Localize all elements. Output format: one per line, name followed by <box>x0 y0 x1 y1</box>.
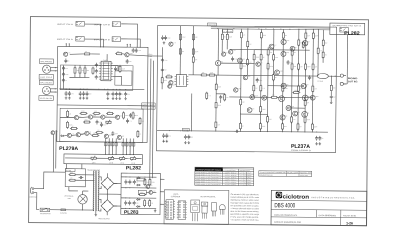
resistor R38 <box>260 53 262 61</box>
label CH A supply <box>142 103 156 106</box>
transistor package TO-247 view <box>191 200 200 212</box>
svg-text:110V-60Hz: 110V-60Hz <box>224 184 237 186</box>
capacitor C67 <box>219 95 222 100</box>
wire secondary tap 3 <box>99 199 101 203</box>
svg-text:10K: 10K <box>306 84 309 86</box>
transistor Q50 output stage <box>281 39 286 44</box>
svg-text:impedancia minima 4 ohms c: impedancia minima 4 ohms canal. <box>231 199 260 202</box>
resistor R93 rail <box>192 56 194 64</box>
capacitor C51 filter <box>128 180 131 185</box>
svg-text:+/-52 VAC: +/-52 VAC <box>239 177 251 179</box>
svg-text:DBS 4000: DBS 4000 <box>274 202 295 209</box>
resistor R29 <box>119 65 121 73</box>
svg-text:110V-60Hz: 110V-60Hz <box>224 182 237 184</box>
wire header pin 2 to PL282 <box>108 138 110 154</box>
svg-text:560R: 560R <box>140 192 143 194</box>
transistor Q22 <box>168 84 172 88</box>
resistor R2 <box>115 53 123 55</box>
svg-text:10K: 10K <box>217 124 220 126</box>
ic package view DIP U20 <box>166 200 174 220</box>
svg-text:22K: 22K <box>285 116 288 118</box>
svg-text:47K: 47K <box>262 88 265 90</box>
svg-text:I N D U S T R I A E L E T R: I N D U S T R I A E L E T R O N I C A L … <box>311 196 356 199</box>
label PL-282 filter <box>65 169 75 172</box>
transistor Q52 output stage <box>280 115 285 120</box>
resistor R68 <box>297 123 299 131</box>
wire jack J4 to preamp input <box>121 39 140 47</box>
resistor R63 <box>291 63 293 71</box>
svg-text:TRB4000-126 PONTO 6: TRB4000-126 PONTO 6 <box>196 184 221 186</box>
svg-text:DISJUNTOR 8A: DISJUNTOR 8A <box>260 175 273 177</box>
resistor R16 <box>139 117 141 125</box>
transistor Q9 <box>85 131 89 135</box>
capacitor C66 input <box>62 78 65 83</box>
wire transformer primary second <box>85 179 94 181</box>
svg-text:2u2: 2u2 <box>103 124 106 126</box>
table transformer voltages <box>195 167 223 171</box>
power amp board PL237A outline <box>157 25 337 152</box>
ground zobel <box>330 101 333 104</box>
svg-text:INPUT CH B: INPUT CH B <box>94 23 111 26</box>
transistor Q51 output stage <box>303 41 308 46</box>
svg-text:Os sinais A (A) sao identicos.: Os sinais A (A) sao identicos. <box>231 193 260 196</box>
bridge rectifier BR1 <box>101 177 114 190</box>
svg-text:INTERRUPTOR: INTERRUPTOR <box>40 213 51 215</box>
wire amp rail 3 <box>239 29 242 132</box>
svg-text:2K2: 2K2 <box>325 42 328 44</box>
trimmer VR4 level <box>131 156 136 160</box>
wire preamp left drop B <box>55 130 57 168</box>
svg-text:1n: 1n <box>65 80 67 82</box>
wire PL282 to mains filter stub 2 <box>81 164 83 169</box>
svg-text:560R: 560R <box>279 70 282 72</box>
ground amp left 2 <box>184 141 187 144</box>
wire center tap <box>99 193 121 195</box>
wire vas drops <box>221 29 223 33</box>
svg-text:deve ser de mesma secao m: deve ser de mesma secao minima, <box>230 210 259 213</box>
transformer T1 secondary winding <box>98 171 99 211</box>
wire transformer primary top <box>85 174 94 176</box>
wire rails into PL282 box <box>329 27 331 29</box>
transistor Q43 output stage <box>256 62 260 66</box>
wire amp rail 14 <box>317 29 319 76</box>
resistor R18 <box>79 66 81 74</box>
connector jack J2 INPUT CH A <box>76 36 84 41</box>
wire amp rail 6 <box>259 29 262 132</box>
svg-text:560R: 560R <box>95 70 98 72</box>
transistor Q33 output stage <box>290 46 295 51</box>
zobel capacitor C30 <box>330 94 333 99</box>
capacitor C60 <box>287 60 290 65</box>
wire preamp mid bus <box>59 88 144 91</box>
transistor Q31 output stage <box>269 44 274 49</box>
resistor R37 <box>302 41 304 49</box>
svg-text:DATA 08/09/2001: DATA 08/09/2001 <box>319 214 337 217</box>
svg-text:2u2: 2u2 <box>333 96 336 98</box>
svg-text:4K7: 4K7 <box>325 54 328 56</box>
label CH B supply <box>142 106 156 109</box>
svg-text:+75V 0 -75V: +75V 0 -75V <box>208 24 216 26</box>
wire preamp supply row <box>57 104 147 107</box>
capacitor C35 <box>165 133 168 138</box>
svg-text:2K2: 2K2 <box>270 52 273 54</box>
svg-text:10K: 10K <box>315 66 318 68</box>
resistor R83 <box>149 199 151 207</box>
wire zobel drop <box>330 76 332 84</box>
resistor R11 <box>137 130 139 138</box>
wire PL283 bus mid1 <box>121 187 156 189</box>
transistor Q30 output stage <box>237 58 242 63</box>
resistor R21 <box>179 47 181 55</box>
resistor R90 vas <box>221 33 223 41</box>
svg-text:150R: 150R <box>195 51 198 53</box>
resistor R14 <box>70 127 78 129</box>
wire fan feed <box>82 191 84 195</box>
svg-text:150R: 150R <box>294 90 297 92</box>
capacitor C64 input <box>62 66 65 71</box>
wire output node <box>328 75 340 77</box>
capacitor C16 <box>129 113 132 118</box>
trimmer RV1 <box>106 120 111 124</box>
svg-text:- Ao ajustar o nivel use: - Ao ajustar o nivel use sinal rosa. <box>230 218 259 221</box>
svg-text:FUSIVEL 10A: FUSIVEL 10A <box>300 172 311 174</box>
resistor R41 <box>312 63 314 71</box>
pot board PL282 outline <box>64 154 143 165</box>
resistor R58 <box>297 85 299 93</box>
svg-text:PL283: PL283 <box>124 210 139 216</box>
svg-text:+/-75V DC: +/-75V DC <box>223 31 232 33</box>
capacitor C55 <box>133 201 136 206</box>
switch S1 mains <box>40 208 50 211</box>
zobel resistor R60 <box>330 84 332 92</box>
transistor Q10 <box>104 134 108 138</box>
svg-text:150R: 150R <box>109 134 112 136</box>
svg-text:47K: 47K <box>243 35 246 37</box>
capacitor C23 <box>161 67 164 72</box>
svg-text:1-26: 1-26 <box>346 221 353 225</box>
capacitor C2 <box>135 48 138 53</box>
resistor R99 link <box>270 96 278 98</box>
svg-text:22u: 22u <box>311 77 314 79</box>
resistor R46 <box>260 105 262 113</box>
ic package view DIP U21 <box>178 201 186 220</box>
trimmer VR3 level <box>120 156 125 160</box>
resistor R1 <box>83 53 91 55</box>
transistor Q20 <box>169 42 173 46</box>
svg-text:10K: 10K <box>94 111 97 113</box>
transistor Q37 output stage <box>281 83 286 88</box>
capacitor C15 decoupling <box>124 92 127 97</box>
transformer T1 core <box>94 171 96 211</box>
transistor Q48 output stage <box>247 108 252 113</box>
svg-text:330R: 330R <box>218 105 221 107</box>
diode D12 <box>136 199 140 201</box>
resistor R17 <box>74 66 76 74</box>
svg-text:1K: 1K <box>242 126 244 128</box>
capacitor C10 decoupling <box>86 91 89 96</box>
svg-text:110V-60Hz: 110V-60Hz <box>224 177 237 179</box>
junction link nodes <box>150 105 151 106</box>
svg-text:- A tensao alternada sobre: - A tensao alternada sobre os cabos <box>230 207 259 210</box>
transistor Q45 output stage <box>262 95 267 100</box>
svg-text:1K: 1K <box>275 77 277 79</box>
capacitor C22 <box>161 58 164 63</box>
svg-text:1n: 1n <box>68 60 70 62</box>
svg-text:100R: 100R <box>262 126 265 128</box>
wire PL283 bus bottom <box>121 207 156 209</box>
resistor R69 <box>304 99 306 107</box>
wire header pin 4 to PL282 <box>115 138 117 154</box>
transistor Q2 input channel B <box>125 53 129 57</box>
svg-text:1n: 1n <box>136 182 138 184</box>
wire positive rail <box>211 27 330 28</box>
wire amp inner bus 6 <box>289 107 306 109</box>
capacitor C54 <box>133 180 136 185</box>
diode D11 <box>136 184 140 186</box>
svg-text:2K2: 2K2 <box>242 59 245 61</box>
capacitor C50 filter <box>124 180 127 185</box>
svg-text:2K2: 2K2 <box>269 119 272 121</box>
wire amp rail 15 <box>322 30 324 63</box>
resistor R53 <box>297 63 299 71</box>
sheet border frame <box>29 17 369 226</box>
wire AC line top <box>34 172 65 189</box>
resistor R20 <box>179 33 181 41</box>
ground amp left 1 <box>162 140 165 143</box>
resistor R94 <box>206 92 208 100</box>
wire link column 2 <box>152 61 153 178</box>
resistor R42 <box>260 84 262 92</box>
svg-text:10K: 10K <box>314 88 317 90</box>
connector jack J1 INPUT CH A <box>76 21 84 26</box>
svg-text:1n: 1n <box>122 94 124 96</box>
wire inner vertical left <box>190 94 192 131</box>
svg-text:22K: 22K <box>195 37 198 39</box>
capacitor C11 decoupling <box>106 92 109 97</box>
wire amp rail 11 <box>297 29 300 132</box>
svg-text:330R: 330R <box>314 126 317 128</box>
svg-text:FUSIVEL: FUSIVEL <box>60 212 67 214</box>
resistor R47 <box>266 115 268 123</box>
resistor R48 <box>290 116 292 124</box>
wire transformer primary bottom <box>93 209 94 211</box>
preamp inner box lower <box>60 108 143 142</box>
preamp inner shield box upper <box>60 65 133 90</box>
svg-text:47K: 47K <box>173 42 176 44</box>
svg-text:330R: 330R <box>307 66 310 68</box>
resistor R13 <box>66 121 68 129</box>
svg-text:100R: 100R <box>256 57 259 59</box>
resistor R31 <box>260 31 262 39</box>
wire link column 1 <box>150 59 151 181</box>
capacitor C12 decoupling <box>112 92 115 97</box>
wire PL282 strip bus <box>65 157 91 159</box>
svg-text:1K: 1K <box>263 57 265 59</box>
svg-text:+/-52 VAC: +/-52 VAC <box>239 180 251 182</box>
svg-text:22K: 22K <box>307 102 310 104</box>
svg-text:22u: 22u <box>191 137 194 139</box>
svg-text:22K: 22K <box>117 51 120 53</box>
transistor Q5 <box>101 115 105 119</box>
svg-text:4K7: 4K7 <box>260 62 263 64</box>
svg-text:150R: 150R <box>218 86 221 88</box>
preamp board PL279A outline <box>57 46 148 142</box>
capacitor C9 decoupling <box>82 91 85 96</box>
wire header pin 6 to PL282 <box>126 138 128 154</box>
svg-text:PONTE: PONTE <box>183 129 189 131</box>
resistor R82 <box>149 178 151 186</box>
resistor R70 <box>215 83 217 91</box>
trimmer VR2 level <box>109 156 114 160</box>
svg-text:100n: 100n <box>259 80 262 82</box>
wire amp rail 7 <box>266 47 269 131</box>
svg-text:+/-52 VAC: +/-52 VAC <box>239 175 251 177</box>
svg-text:TRB4000-126 PONTO 4: TRB4000-126 PONTO 4 <box>196 179 221 181</box>
svg-text:330R: 330R <box>243 66 246 68</box>
svg-text:TRB4000-126 PONTO 3: TRB4000-126 PONTO 3 <box>196 177 221 179</box>
wire IC to top row <box>106 54 108 61</box>
capacitor C28 <box>126 119 129 124</box>
wire amp input chain <box>148 55 162 57</box>
svg-text:1K: 1K <box>139 134 141 136</box>
wire amp rail 13 <box>311 29 314 132</box>
wire input stubs channel B <box>126 44 128 47</box>
wire switch to fuse <box>50 209 61 211</box>
svg-text:10K: 10K <box>142 121 145 123</box>
diode D1 <box>60 135 64 137</box>
bridge rectifier BR2 <box>101 200 114 213</box>
wire secondary tap 4 <box>99 209 101 211</box>
transistor Q7 <box>67 133 71 137</box>
wire amp inner bus 5 <box>241 113 268 115</box>
mains filter board PL-282 outline <box>65 169 85 187</box>
svg-text:ciclotron: ciclotron <box>283 193 310 200</box>
resistor R15 <box>83 121 91 123</box>
resistor R98 feedback <box>292 92 300 94</box>
svg-text:10K: 10K <box>300 66 303 68</box>
fan motor M1 VENTOINHA <box>78 195 87 204</box>
wire jack J1 to preamp input <box>85 24 101 47</box>
svg-text:1K: 1K <box>295 47 297 49</box>
svg-text:100n: 100n <box>115 133 118 135</box>
transistor Q6 <box>115 115 119 119</box>
wire amp rail 12 <box>304 29 307 132</box>
capacitor C65 input <box>62 72 65 77</box>
wire XLR CN1 to preamp <box>51 67 58 69</box>
wire fuse to transformer <box>66 209 93 211</box>
wire IC feedback <box>113 66 118 71</box>
capacitor C52 filter <box>124 201 127 206</box>
svg-text:47u: 47u <box>129 120 132 122</box>
resistor R6 <box>106 113 114 115</box>
capacitor C14 decoupling <box>118 92 121 97</box>
transistor Q36 output stage <box>301 83 306 88</box>
resistor R67 <box>259 122 261 130</box>
wire amp rail 5 <box>253 50 255 97</box>
capacitor C13 decoupling <box>115 92 118 97</box>
transistor Q46 output stage <box>234 88 238 92</box>
label amp corner box <box>207 23 216 26</box>
ground amp input <box>163 41 166 44</box>
svg-text:110V-60Hz: 110V-60Hz <box>224 172 237 174</box>
svg-text:560R: 560R <box>164 80 167 82</box>
transistor Q8 <box>76 133 80 137</box>
capacitor C31 <box>234 130 239 133</box>
trimmer VR1 level <box>91 156 96 160</box>
resistor R10 <box>95 131 103 133</box>
svg-text:REDE 110V: REDE 110V <box>287 172 298 174</box>
svg-text:INPUT CH A: INPUT CH A <box>57 23 74 26</box>
transistor package TO-92 view <box>219 205 225 210</box>
svg-text:47K: 47K <box>108 111 111 113</box>
transistor Q34 output stage <box>279 96 285 102</box>
resistor R51 <box>281 122 283 130</box>
transistor Q51 <box>146 185 150 189</box>
svg-text:PL282: PL282 <box>126 165 141 171</box>
svg-text:4K7: 4K7 <box>294 52 297 54</box>
resistor R61 <box>267 62 269 70</box>
wire input stubs channel A <box>65 44 67 47</box>
svg-text:2u2: 2u2 <box>98 77 101 79</box>
svg-text:6K8: 6K8 <box>294 66 297 68</box>
capacitor C21 <box>164 35 167 40</box>
wire amp rail drop 1 <box>179 26 181 75</box>
svg-text:100R: 100R <box>152 182 155 184</box>
ground PL283 <box>154 209 157 212</box>
speaker board PL282 outline <box>330 23 365 35</box>
wire amp inner bus 2 <box>229 96 312 99</box>
wire amp rail 9 <box>281 29 284 132</box>
wire filter out <box>76 174 85 176</box>
svg-text:2K2: 2K2 <box>122 136 125 138</box>
transistor Q21 <box>169 81 173 85</box>
diode D13 <box>136 206 140 208</box>
transistor Q40 output stage <box>293 111 298 116</box>
capacitor C53 filter <box>128 201 131 206</box>
resistor R81 <box>144 199 146 207</box>
junction node jack bus A <box>100 46 101 47</box>
transistor package TO-220 view <box>201 202 207 206</box>
resistor R64 <box>304 63 306 71</box>
resistor R34 <box>312 32 314 40</box>
resistor R52 <box>311 123 313 131</box>
svg-text:6K8: 6K8 <box>120 115 123 117</box>
resistor R57 <box>298 39 300 47</box>
transistor Q3 <box>74 116 78 120</box>
transistor Q50 regulator <box>149 190 153 194</box>
svg-text:560R: 560R <box>270 66 273 68</box>
capacitor C18 <box>95 120 98 125</box>
svg-text:22K: 22K <box>242 102 245 104</box>
connector speaker jack <box>340 27 348 32</box>
svg-text:PL279A: PL279A <box>59 146 78 152</box>
wire amp inner bus 1 <box>230 48 310 51</box>
svg-text:560R: 560R <box>229 36 232 38</box>
svg-text:2K2: 2K2 <box>272 95 275 97</box>
svg-text:220p: 220p <box>65 74 68 76</box>
diode D10 <box>136 177 140 179</box>
svg-text:470n: 470n <box>164 60 167 62</box>
svg-text:4K7: 4K7 <box>293 119 296 121</box>
resistor R59 <box>322 39 324 47</box>
resistor R56 <box>253 84 255 92</box>
wire bridge link from PL282 box <box>346 34 348 83</box>
wire channel A link out <box>129 55 148 56</box>
label regul box <box>137 178 145 181</box>
wire XLR CN2 to preamp <box>51 88 58 90</box>
transistor Q12 left edge <box>51 131 55 135</box>
wire lower chain 1 <box>79 116 89 119</box>
